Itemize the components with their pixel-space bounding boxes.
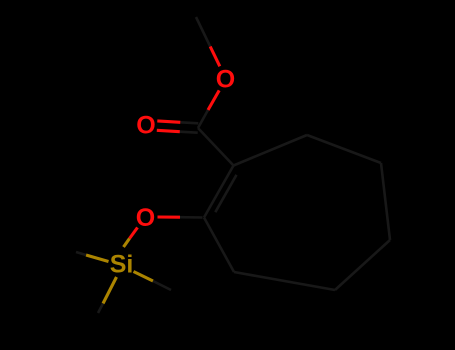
wire: bond Si-CH3 right silicon half	[134, 272, 154, 282]
wire: ring double bond C1=C2 inner line	[215, 175, 236, 212]
wire: bond Si-CH3 bottom carbon half	[98, 304, 103, 314]
wire: bond CH3-O carbon half	[196, 17, 210, 47]
wire: bond O-C2 carbon half	[180, 216, 203, 219]
wire: C=O double bond line oxygen half	[157, 121, 180, 122]
wire: C=O double bond line oxygen half	[157, 130, 180, 131]
wire: bond O-C(=O) oxygen half	[208, 90, 219, 110]
wire: ring bond C5-C6	[381, 163, 390, 240]
svg-text:O: O	[216, 66, 235, 94]
svg-text:O: O	[136, 204, 155, 232]
wire: bond O-C(=O) carbon half	[198, 110, 208, 128]
wire: C=O double bond line carbon half	[180, 122, 198, 123]
wire: bond CH3-O oxygen half	[210, 47, 220, 67]
wire: ring bond C4-C5	[335, 240, 390, 290]
wire: ring bond C6-C7	[307, 135, 381, 163]
wire: ring bond C2-C3	[204, 218, 234, 273]
wire: bond Si-CH3 right carbon half	[153, 281, 171, 290]
wire: bond O-Si oxygen half	[130, 228, 138, 239]
wire: bond Si-CH3 left carbon half	[76, 252, 86, 255]
wire: C=O double bond line carbon half	[180, 132, 198, 133]
wire: ring bond C7-C1	[234, 135, 308, 166]
wire: bond O-Si silicon half	[124, 239, 130, 248]
svg-text:O: O	[136, 112, 155, 140]
wire: ring bond C3-C4	[234, 272, 335, 290]
wire: ring bond C1-C2	[204, 166, 234, 218]
wire: bond Si-CH3 bottom silicon half	[103, 277, 117, 304]
wire: bond C(=O)-C1	[198, 128, 234, 166]
wire: bond Si-CH3 left silicon half	[86, 255, 109, 262]
wire: bond O-C2 oxygen half	[158, 215, 181, 218]
svg-text:Si: Si	[110, 251, 134, 279]
